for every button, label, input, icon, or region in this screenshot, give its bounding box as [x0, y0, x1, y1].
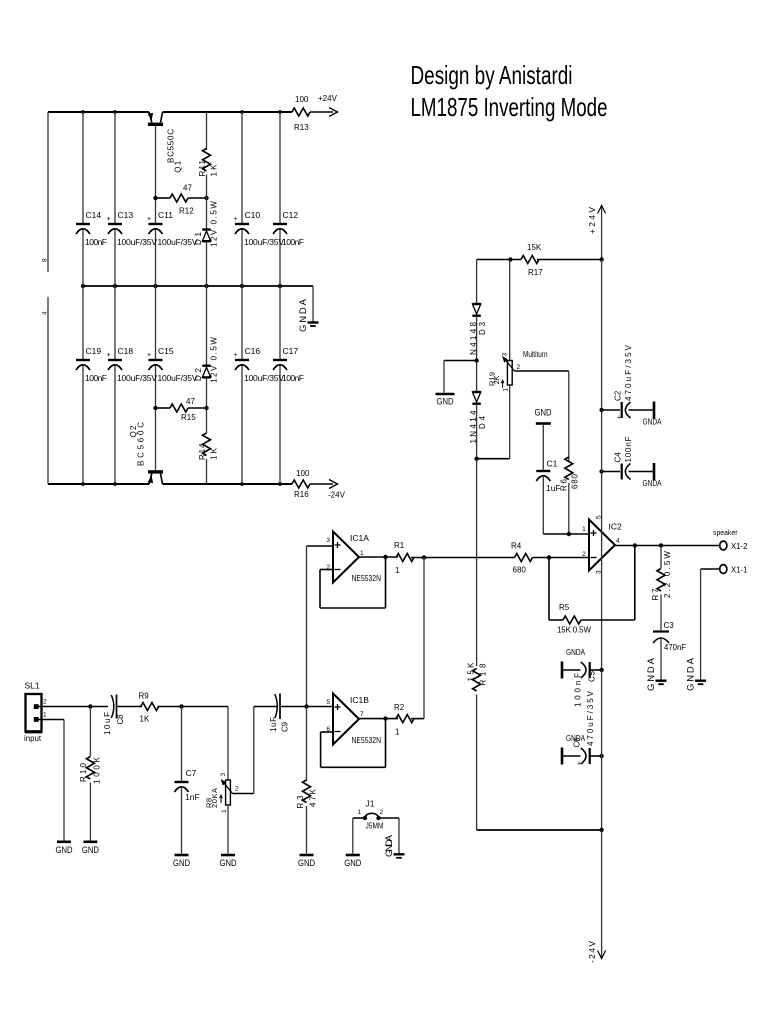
- svg-text:Design by Anistardi: Design by Anistardi: [411, 60, 573, 90]
- capacitor C17: [273, 346, 304, 383]
- resistor R14: [198, 408, 219, 484]
- svg-text:3: 3: [502, 353, 509, 357]
- svg-text:BC560C: BC560C: [137, 422, 146, 466]
- svg-text:3: 3: [220, 773, 227, 777]
- svg-text:C12: C12: [283, 210, 299, 220]
- svg-text:R6: R6: [560, 478, 569, 491]
- svg-text:100nF: 100nF: [574, 673, 583, 707]
- op-amp IC2: [582, 515, 622, 574]
- capacitor C6: [562, 690, 604, 767]
- svg-text:2K: 2K: [492, 376, 501, 385]
- svg-text:R5: R5: [559, 603, 570, 612]
- transistor Q2: [129, 408, 163, 484]
- capacitor C19: [76, 346, 107, 383]
- svg-text:7: 7: [360, 711, 364, 718]
- svg-text:100uF/35V: 100uF/35V: [244, 237, 284, 247]
- svg-text:R16: R16: [294, 490, 309, 499]
- svg-text:2: 2: [517, 364, 521, 371]
- diode D3: [469, 260, 487, 356]
- svg-text:GND: GND: [535, 408, 552, 418]
- wire R19 wiper to R6: [514, 371, 568, 462]
- svg-text:J1: J1: [366, 799, 375, 809]
- capacitor C12: [273, 210, 304, 247]
- svg-text:12V 0.5W: 12V 0.5W: [210, 201, 219, 247]
- capacitor C8: [103, 695, 142, 736]
- svg-text:GNDA: GNDA: [566, 647, 585, 657]
- svg-text:input: input: [24, 733, 42, 743]
- svg-text:20KA: 20KA: [210, 788, 219, 808]
- resistor R12: [153, 184, 208, 216]
- +24V arrow right: [310, 94, 338, 117]
- connector X1-1: [720, 565, 748, 575]
- wire rail C2-C4: [601, 410, 603, 472]
- resistor R11: [198, 112, 219, 198]
- resistor R3: [296, 707, 318, 869]
- svg-text:IC1B: IC1B: [350, 695, 369, 705]
- svg-text:D3: D3: [478, 321, 487, 335]
- svg-text:1: 1: [43, 712, 47, 719]
- svg-text:470nF: 470nF: [664, 643, 686, 652]
- svg-text:100: 100: [296, 469, 310, 478]
- capacitor C18: [107, 346, 158, 383]
- svg-text:100uF/35V: 100uF/35V: [158, 237, 198, 247]
- svg-text:1: 1: [357, 809, 361, 816]
- ground GNDA psu: [298, 286, 319, 332]
- svg-text:SL1: SL1: [25, 681, 40, 691]
- svg-text:100nF: 100nF: [282, 373, 304, 383]
- svg-text:speaker: speaker: [713, 530, 738, 537]
- svg-text:1: 1: [360, 550, 364, 557]
- wire input bus: [304, 546, 308, 709]
- svg-text:LM1875 Inverting Mode: LM1875 Inverting Mode: [411, 92, 608, 122]
- svg-text:C5: C5: [588, 670, 597, 682]
- svg-text:1K: 1K: [140, 715, 150, 724]
- diode D2: [194, 286, 219, 408]
- svg-text:1: 1: [395, 728, 400, 737]
- svg-text:1nF: 1nF: [185, 792, 200, 802]
- svg-text:1: 1: [395, 566, 400, 575]
- capacitor C15: [147, 346, 198, 383]
- svg-text:+: +: [234, 352, 238, 359]
- svg-text:GND: GND: [220, 858, 237, 868]
- svg-text:470uF/35V: 470uF/35V: [624, 344, 633, 401]
- svg-text:100: 100: [295, 95, 309, 104]
- svg-text:R4: R4: [511, 542, 522, 551]
- svg-text:C16: C16: [245, 346, 261, 356]
- svg-text:15K: 15K: [467, 662, 476, 682]
- wire R2 to node: [411, 558, 424, 719]
- svg-text:+: +: [234, 216, 238, 223]
- wire +24V rail top: [587, 206, 606, 260]
- resistor R4 labels: [511, 542, 526, 575]
- svg-text:2: 2: [43, 699, 47, 706]
- svg-text:X1-1: X1-1: [731, 565, 748, 575]
- svg-text:+24V: +24V: [318, 94, 338, 103]
- wire rail C6-bottom: [599, 756, 603, 832]
- wire R18 to -24V: [477, 695, 602, 831]
- svg-text:8: 8: [42, 258, 49, 262]
- diode D4: [469, 392, 487, 444]
- svg-text:470uF/35V: 470uF/35V: [586, 690, 595, 746]
- svg-text:GNDA: GNDA: [643, 478, 662, 488]
- svg-text:C15: C15: [158, 346, 174, 356]
- wire bottom -V rail: [48, 482, 292, 486]
- svg-text:1: 1: [503, 388, 510, 392]
- svg-text:-24V: -24V: [328, 491, 346, 500]
- svg-text:4: 4: [42, 311, 49, 315]
- svg-text:+: +: [147, 352, 151, 359]
- svg-text:R11: R11: [198, 159, 207, 176]
- wire rail +24 to C2: [601, 260, 603, 411]
- svg-text:100nF: 100nF: [85, 373, 107, 383]
- capacitor C14: [76, 210, 107, 247]
- svg-text:C8: C8: [116, 714, 125, 725]
- connector SL1: [24, 681, 47, 744]
- svg-text:+: +: [617, 415, 621, 422]
- svg-text:100nF: 100nF: [282, 237, 304, 247]
- svg-text:R17: R17: [528, 268, 543, 277]
- svg-text:+: +: [147, 216, 151, 223]
- svg-text:GND: GND: [437, 397, 454, 407]
- svg-text:C6: C6: [573, 737, 582, 748]
- svg-text:1: 1: [221, 809, 228, 813]
- capacitor C10: [234, 210, 285, 247]
- svg-text:47: 47: [186, 397, 195, 406]
- resistor R18: [467, 662, 488, 691]
- resistor R9: [139, 692, 229, 724]
- svg-text:IC2: IC2: [609, 522, 623, 532]
- jumper J1: [344, 799, 404, 869]
- svg-text:1uF: 1uF: [269, 717, 278, 732]
- svg-text:R10: R10: [79, 762, 88, 782]
- wire R8 wiper to C9: [233, 707, 278, 794]
- wire D4 down: [474, 386, 509, 461]
- capacitor C13: [107, 210, 158, 247]
- svg-text:R9: R9: [139, 692, 150, 701]
- svg-text:Multiturn: Multiturn: [523, 350, 548, 359]
- svg-text:C2: C2: [614, 390, 623, 401]
- capacitor C3: [646, 621, 686, 691]
- wire cap columns bottom: [83, 286, 280, 484]
- wire cap columns top: [83, 112, 280, 286]
- svg-text:100nF: 100nF: [85, 237, 107, 247]
- svg-text:47: 47: [183, 184, 192, 193]
- wire inv input line: [411, 554, 589, 562]
- svg-text:100uF/35V: 100uF/35V: [158, 373, 198, 383]
- resistor R5: [549, 546, 635, 635]
- svg-text:C17: C17: [283, 346, 299, 356]
- svg-text:GND: GND: [344, 858, 361, 868]
- svg-text:2: 2: [235, 786, 239, 793]
- svg-text:C9: C9: [281, 721, 290, 732]
- wire IC1A feedback: [320, 555, 398, 608]
- capacitor C11: [147, 210, 198, 247]
- resistor R7: [651, 546, 672, 631]
- svg-text:C13: C13: [118, 210, 134, 220]
- svg-text:+: +: [107, 352, 111, 359]
- resistor R10: [79, 707, 102, 856]
- svg-text:GND: GND: [298, 858, 315, 868]
- title text: [411, 60, 608, 122]
- wire IC2 output: [615, 543, 720, 547]
- wire rail through IC2: [601, 520, 603, 671]
- svg-text:100K: 100K: [93, 756, 102, 784]
- svg-text:100uF/35V: 100uF/35V: [117, 237, 157, 247]
- svg-text:2: 2: [380, 809, 384, 816]
- wire IC1A +in: [307, 545, 334, 547]
- svg-text:D4: D4: [478, 415, 487, 429]
- trimmer R19: [488, 260, 548, 392]
- svg-text:+: +: [577, 761, 581, 768]
- resistor R2: [394, 703, 414, 737]
- svg-text:GND: GND: [173, 858, 190, 868]
- capacitor C7: [173, 707, 200, 869]
- capacitor C5: [562, 647, 604, 707]
- svg-text:R1: R1: [394, 541, 405, 550]
- trimmer R8: [205, 707, 240, 869]
- svg-text:C10: C10: [245, 210, 261, 220]
- svg-text:GNDA: GNDA: [643, 417, 662, 427]
- svg-text:R14: R14: [198, 443, 207, 460]
- svg-text:C19: C19: [86, 346, 102, 356]
- wire left net 4 stub: [42, 297, 49, 484]
- svg-text:C11: C11: [158, 210, 173, 220]
- ground GND d3: [436, 361, 477, 407]
- svg-text:1K: 1K: [210, 164, 219, 177]
- wire D3-D4 junction: [474, 316, 478, 391]
- svg-text:R13: R13: [294, 123, 309, 132]
- svg-text:GND: GND: [82, 845, 99, 855]
- svg-text:2.2 0.5W: 2.2 0.5W: [663, 551, 672, 598]
- svg-text:1uF: 1uF: [546, 483, 561, 493]
- resistor R15: [153, 397, 208, 422]
- wire IC1B feedback: [321, 716, 398, 767]
- svg-text:GNDA: GNDA: [298, 298, 309, 332]
- svg-text:NE5532N: NE5532N: [352, 573, 382, 583]
- svg-text:5: 5: [596, 515, 603, 519]
- wire mid rail: [81, 284, 313, 288]
- wire left net 8 stub: [42, 112, 49, 272]
- resistor R16: [292, 469, 310, 499]
- svg-text:+24V: +24V: [587, 207, 597, 234]
- svg-text:C4: C4: [614, 452, 623, 463]
- wire X1-1 gnd: [686, 569, 720, 691]
- svg-text:-24V: -24V: [587, 941, 597, 963]
- svg-text:3: 3: [326, 537, 330, 544]
- svg-text:15K 0.5W: 15K 0.5W: [557, 626, 591, 635]
- resistor R17: [477, 243, 604, 277]
- op-amp IC1A: [326, 532, 381, 584]
- svg-text:R7: R7: [651, 588, 660, 601]
- capacitor C16: [234, 346, 285, 383]
- capacitor C1: [536, 459, 589, 535]
- wire R4 node to R18: [476, 459, 478, 666]
- svg-text:R15: R15: [181, 413, 196, 422]
- svg-text:BC550C: BC550C: [167, 129, 176, 163]
- svg-text:C18: C18: [118, 346, 134, 356]
- resistor R6: [560, 457, 580, 536]
- svg-text:15K: 15K: [527, 243, 542, 252]
- transistor Q1: [148, 112, 183, 198]
- wire rail C5-C6: [601, 670, 603, 756]
- svg-text:GNDA: GNDA: [646, 657, 657, 691]
- svg-text:680: 680: [513, 566, 527, 575]
- svg-text:1: 1: [582, 526, 586, 533]
- wire SL1 pin2: [37, 704, 108, 708]
- capacitor C2: [599, 344, 661, 426]
- svg-text:C3: C3: [664, 621, 675, 630]
- capacitor C4: [599, 436, 661, 488]
- svg-text:5: 5: [326, 699, 330, 706]
- svg-text:12V 0.5W: 12V 0.5W: [210, 337, 219, 383]
- op-amp IC1B: [326, 694, 381, 746]
- svg-text:4: 4: [616, 538, 620, 545]
- svg-text:100nF: 100nF: [624, 436, 633, 462]
- capacitor C9: [269, 694, 333, 733]
- svg-text:GNDA: GNDA: [686, 657, 697, 691]
- connector X1-2: [713, 530, 748, 551]
- ground GND c1: [535, 408, 552, 471]
- svg-text:X1-2: X1-2: [731, 541, 748, 551]
- diode D1: [194, 198, 219, 286]
- svg-text:J5MM: J5MM: [366, 822, 384, 831]
- svg-text:R12: R12: [179, 207, 194, 216]
- svg-text:IC1A: IC1A: [350, 533, 369, 543]
- svg-text:+: +: [107, 216, 111, 223]
- svg-text:GNDA: GNDA: [384, 834, 395, 857]
- wire SL1 pin1 gnd: [37, 720, 73, 856]
- svg-text:1K: 1K: [210, 447, 219, 460]
- svg-text:C1: C1: [547, 459, 558, 469]
- svg-text:C14: C14: [86, 210, 102, 220]
- svg-text:C7: C7: [186, 768, 197, 778]
- -24V arrow right: [310, 480, 346, 500]
- svg-text:100uF/35V: 100uF/35V: [244, 373, 284, 383]
- -24V arrow bottom: [587, 830, 606, 963]
- resistor R13: [292, 95, 310, 132]
- svg-text:100uF/35V: 100uF/35V: [117, 373, 157, 383]
- svg-text:GND: GND: [56, 845, 73, 855]
- svg-text:NE5532N: NE5532N: [352, 735, 382, 745]
- svg-text:10uF: 10uF: [103, 712, 112, 735]
- svg-text:Q1: Q1: [174, 160, 183, 173]
- svg-text:R2: R2: [394, 703, 405, 712]
- resistor R1: [394, 541, 414, 575]
- svg-text:680: 680: [571, 473, 580, 489]
- wire rail C4-IC2: [601, 472, 603, 520]
- svg-text:R18: R18: [479, 663, 488, 686]
- wire top +V rail: [48, 110, 292, 114]
- svg-text:47K: 47K: [309, 788, 318, 807]
